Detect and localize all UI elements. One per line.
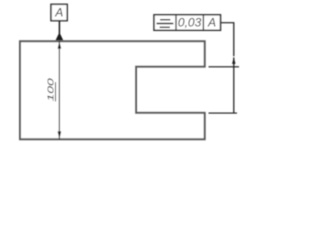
svg-text:A: A <box>207 16 216 30</box>
svg-text:100: 100 <box>47 78 56 102</box>
svg-text:A: A <box>54 6 63 20</box>
svg-text:0,03: 0,03 <box>178 16 202 30</box>
